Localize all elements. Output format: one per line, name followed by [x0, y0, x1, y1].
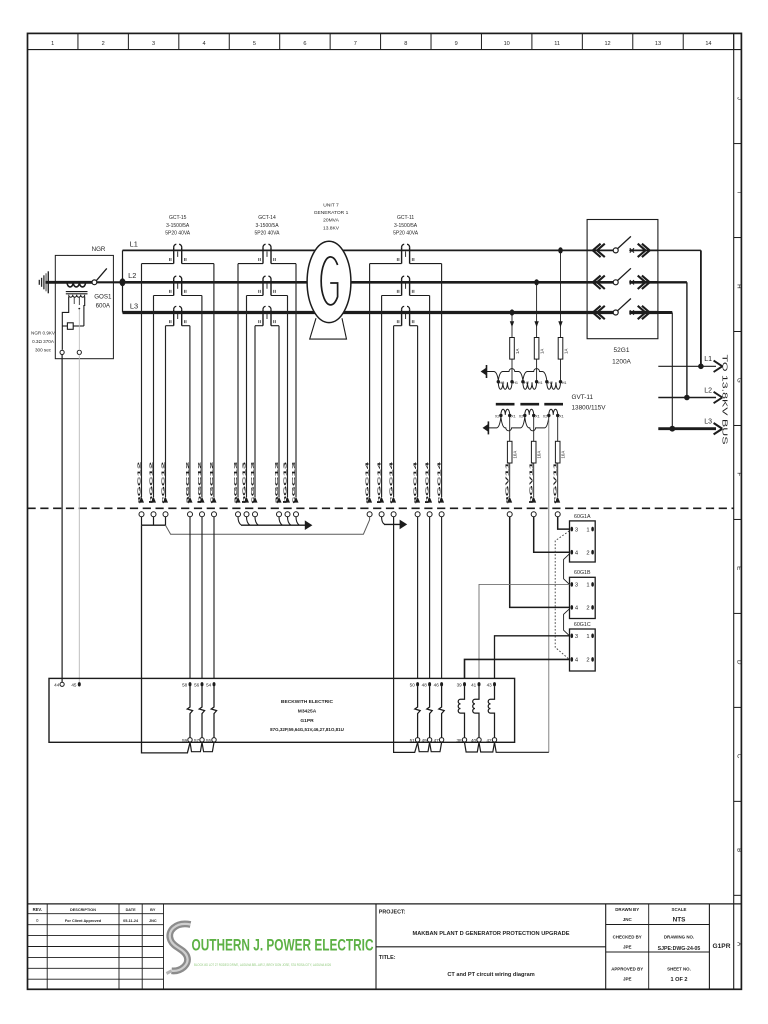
svg-text:cGC14: cGC14 [437, 461, 443, 504]
NGR transformer secondary winding [69, 295, 85, 297]
boundary marker wire bGC13 [285, 497, 290, 503]
svg-text:E: E [736, 566, 743, 570]
svg-text:47: 47 [434, 738, 440, 743]
feeder L3 riser [658, 311, 672, 314]
svg-text:cGC12: cGC12 [161, 461, 167, 504]
breaker drawout chevrons right [638, 244, 646, 257]
relay 60G1B terminals [571, 582, 574, 587]
svg-text:13800/115V: 13800/115V [572, 404, 607, 411]
wire GCT-11 c to relay 51 loop [394, 517, 418, 753]
svg-text:DRAWING NO.: DRAWING NO. [664, 935, 694, 940]
svg-text:10: 10 [504, 41, 510, 47]
svg-text:CT and PT circuit wiring diagr: CT and PT circuit wiring diagram [447, 972, 534, 978]
svg-text:6: 6 [303, 41, 306, 47]
svg-text:H2: H2 [548, 381, 553, 385]
svg-text:bGC14: bGC14 [377, 461, 383, 504]
svg-text:1200A: 1200A [612, 359, 631, 366]
wire NGR center tap to relay terminal 45 [78, 310, 80, 350]
boundary marker wire bGV11 [531, 497, 536, 503]
panel boundary dashed line [28, 507, 734, 509]
disconnect switch GOS1 [92, 280, 97, 285]
CT GCT-14 L3 secondary leads [255, 325, 263, 327]
PT GVT-11 phase 1 secondary winding [501, 409, 510, 415]
svg-text:13.8KV: 13.8KV [323, 225, 340, 231]
svg-text:1: 1 [586, 634, 589, 640]
svg-text:GCT-14: GCT-14 [258, 215, 276, 221]
generator G letter [321, 257, 337, 305]
svg-text:DESCRIPTION: DESCRIPTION [70, 908, 96, 912]
svg-text:10A: 10A [537, 451, 542, 459]
wire GCT-15 common to relay 59 loop [142, 525, 191, 753]
svg-text:X2: X2 [543, 415, 548, 419]
relay CT input element [427, 687, 432, 738]
svg-text:5P20 40VA: 5P20 40VA [255, 230, 281, 236]
PT GVT-11 phase 3 core [544, 403, 563, 406]
svg-text:39: 39 [457, 682, 463, 687]
generator neutral wire to NGR [46, 281, 93, 284]
CT GCT-14 L2 terminal marks [258, 290, 260, 293]
svg-text:1 OF 2: 1 OF 2 [670, 977, 687, 983]
svg-text:57: 57 [194, 738, 200, 743]
ground symbol at NGR [38, 280, 40, 285]
boundary marker wire bGC14 [427, 497, 432, 503]
svg-text:300 sec: 300 sec [35, 348, 52, 353]
svg-text:G1PR: G1PR [713, 943, 731, 950]
svg-text:H2: H2 [500, 381, 505, 385]
wires GCT-15 to relay terminals 58 56 54 [189, 517, 191, 679]
PT neutral wire down to relay commons [548, 418, 550, 752]
svg-text:60G1A: 60G1A [574, 514, 591, 520]
NGR terminal to relay 45 [77, 350, 81, 354]
svg-text:PROJECT:: PROJECT: [379, 909, 406, 915]
boundary marker wire aGV11 [507, 497, 512, 503]
svg-text:60G1B: 60G1B [574, 570, 591, 576]
svg-text:SCALE: SCALE [672, 907, 687, 912]
svg-text:H2: H2 [524, 381, 529, 385]
svg-text:10A: 10A [513, 451, 518, 459]
PT primary fuse 1A phase 1 [510, 338, 515, 360]
svg-text:cGC13: cGC13 [250, 461, 256, 504]
breaker pole line [587, 281, 613, 284]
svg-text:OUTHERN J. POWER ELECTRIC: OUTHERN J. POWER ELECTRIC [192, 937, 374, 955]
relay terminal 49 [427, 738, 431, 742]
tap node L1 for PT [558, 247, 563, 253]
relay terminal 59 [188, 738, 192, 742]
feeder L3 node [669, 426, 675, 432]
svg-text:X2: X2 [519, 415, 524, 419]
PT primary grounded bus [486, 365, 488, 378]
svg-text:BECKWITH ELECTRIC: BECKWITH ELECTRIC [281, 699, 334, 705]
PT secondary fuse 10A phase 3 [557, 416, 559, 442]
relay PT input element [458, 687, 464, 738]
bus L2 [123, 281, 588, 284]
CT GCT-11 L1 secondary leads [370, 263, 402, 265]
relay terminal 42 [492, 738, 496, 742]
svg-text:1A: 1A [515, 349, 520, 354]
rev table column lines [46, 904, 48, 989]
boundary marker wire bGC14 [379, 497, 384, 503]
svg-text:10A: 10A [561, 451, 566, 459]
PT secondary grounded bus [487, 421, 489, 434]
boundary marker wire bGC12 [151, 497, 156, 503]
NGR transformer core [66, 291, 88, 293]
CT GCT-15 L1 secondary leads [142, 263, 174, 265]
title block top edge [28, 903, 742, 905]
svg-text:7: 7 [354, 41, 357, 47]
CT GCT-11 L3 terminal marks [396, 320, 398, 323]
boundary marker wire bGC12 [200, 497, 205, 503]
svg-text:L1: L1 [704, 356, 712, 363]
breaker drawout chevrons left [593, 306, 601, 319]
svg-text:TO 13.8KV BUS: TO 13.8KV BUS [721, 355, 728, 446]
CT GCT-11 L2 winding [401, 279, 403, 295]
wire NGR to relay terminal 44 [61, 355, 63, 683]
svg-text:3: 3 [575, 634, 578, 640]
svg-text:CHECKED BY: CHECKED BY [613, 935, 642, 940]
CT GCT-11 L2 secondary leads [382, 295, 402, 297]
top ruler cell ticks [77, 33, 79, 49]
svg-text:49: 49 [422, 738, 428, 743]
boundary marker wire cGC13 [253, 497, 258, 503]
tap node L2 for PT [534, 279, 539, 285]
boundary marker wire aGC13 [236, 497, 241, 503]
svg-text:3: 3 [152, 41, 155, 47]
svg-text:51: 51 [410, 738, 416, 743]
svg-text:55: 55 [206, 738, 212, 743]
CT GCT-15 L1 winding [173, 247, 175, 263]
svg-text:JPE: JPE [623, 977, 632, 982]
svg-text:aGC12: aGC12 [185, 461, 191, 504]
svg-text:5P20 40VA: 5P20 40VA [165, 230, 191, 236]
svg-text:aGC13: aGC13 [233, 461, 239, 504]
NGR enclosure box [55, 255, 113, 358]
relay terminal 48 [428, 682, 431, 686]
svg-text:1: 1 [586, 527, 589, 533]
svg-text:F: F [736, 472, 743, 476]
svg-text:8: 8 [404, 41, 407, 47]
svg-text:UNIT 7: UNIT 7 [323, 203, 339, 209]
boundary marker wire aGC14 [415, 497, 420, 503]
NGR transformer primary winding [67, 282, 86, 287]
svg-text:M3425A: M3425A [298, 708, 317, 714]
svg-text:12: 12 [604, 41, 610, 47]
svg-text:H1: H1 [562, 381, 567, 385]
boundary marker wire cGC13 [294, 497, 299, 503]
svg-text:bGC14: bGC14 [425, 461, 431, 504]
PT GVT-11 phase 1 core [496, 403, 515, 406]
wire aGV11 to 60G1B terminal 4 [510, 517, 570, 608]
breaker contact [613, 280, 618, 285]
wire 60G1C t4 to relay terminal 39 [465, 659, 570, 678]
breaker drawout chevrons right [638, 276, 646, 289]
svg-text:L3: L3 [704, 419, 712, 426]
svg-text:SHEET NO.: SHEET NO. [667, 967, 691, 972]
svg-text:aGC12: aGC12 [137, 461, 143, 504]
svg-text:NTS: NTS [673, 916, 687, 923]
svg-text:3-1500/5A: 3-1500/5A [255, 223, 279, 229]
svg-text:X2: X2 [495, 415, 500, 419]
CT GCT-14 L2 winding [262, 279, 264, 295]
svg-text:J: J [736, 97, 743, 100]
svg-text:1A: 1A [564, 349, 569, 354]
CT GCT-14 L3 terminal marks [258, 320, 260, 323]
boundary marker wire cGC12 [212, 497, 217, 503]
svg-text:11: 11 [554, 41, 560, 47]
relay terminal 58 [189, 682, 192, 686]
relay 51-49-47 common loops [418, 742, 430, 751]
svg-text:5: 5 [253, 41, 256, 47]
svg-text:H1: H1 [538, 381, 543, 385]
relay terminal 41 [478, 682, 481, 686]
breaker drawout chevrons left [593, 276, 601, 289]
relay 60G1A box [570, 521, 596, 562]
CT GCT-11 L3 winding [401, 309, 403, 325]
svg-text:aGV11: aGV11 [505, 461, 511, 504]
PT secondary fuse 10A phase 1 [509, 416, 511, 442]
svg-text:MAKBAN PLANT D GENERATOR PROTE: MAKBAN PLANT D GENERATOR PROTECTION UPGR… [413, 931, 570, 937]
svg-text:cGC12: cGC12 [209, 461, 215, 504]
relay CT input element [415, 687, 420, 738]
svg-text:4: 4 [202, 41, 205, 47]
svg-text:20MVA: 20MVA [323, 218, 339, 224]
PT secondary fuse 10A phase 2 [533, 416, 535, 442]
svg-text:DRAWN BY: DRAWN BY [615, 907, 639, 912]
project cell line [605, 904, 607, 989]
CT GCT-15 L3 winding [173, 309, 175, 325]
svg-text:C: C [736, 754, 743, 759]
boundary marker wire cGC14 [439, 497, 444, 503]
relay 60G1B box [570, 577, 596, 618]
relay terminal 45 [78, 682, 81, 686]
svg-text:2: 2 [102, 41, 105, 47]
svg-text:NGR: NGR [92, 246, 106, 253]
feeder L1 node [698, 364, 704, 370]
PT primary fuse 1A phase 2 [534, 338, 539, 360]
svg-text:0.3Ω 370A: 0.3Ω 370A [32, 339, 55, 344]
svg-text:GOS1: GOS1 [94, 294, 112, 301]
CT GCT-11 L1 terminal marks [396, 258, 398, 261]
breaker drawout chevrons right [638, 306, 646, 319]
boundary marker wire bGC13 [244, 497, 249, 503]
svg-text:NGR 0.9KV: NGR 0.9KV [31, 331, 56, 336]
relay terminal 50 [416, 682, 419, 686]
link 60G1B t4 to 60G1C t3 [564, 609, 570, 636]
relay terminal 39 [463, 682, 466, 686]
relay terminal 46 [440, 682, 443, 686]
svg-text:48: 48 [422, 682, 428, 687]
svg-text:TITLE:: TITLE: [379, 955, 396, 961]
svg-text:cGC14: cGC14 [389, 461, 395, 504]
svg-text:3-1500/5A: 3-1500/5A [166, 223, 190, 229]
svg-text:600A: 600A [96, 303, 111, 310]
svg-text:L2: L2 [704, 387, 712, 394]
feeder L2 arrow line [658, 397, 716, 399]
wire cGV11 to 60G1A terminal 3 [558, 517, 570, 529]
svg-text:X1: X1 [535, 415, 540, 419]
relay terminal 51 [415, 738, 419, 742]
CT GCT-14 L2 secondary leads [247, 295, 264, 297]
svg-text:52G1: 52G1 [614, 347, 630, 354]
relay PT input element [488, 687, 494, 738]
relay 60G1A terminals [571, 527, 574, 532]
svg-text:46: 46 [434, 682, 440, 687]
breaker pole line [587, 311, 613, 314]
boundary marker wire aGC13 [277, 497, 282, 503]
svg-text:SJPE:DWG-24-05: SJPE:DWG-24-05 [658, 946, 701, 952]
CT GCT-15 L2 winding [173, 279, 175, 295]
NGR loading resistor [62, 325, 67, 327]
svg-text:X1: X1 [511, 415, 516, 419]
logo cell line [375, 904, 377, 989]
svg-text:14: 14 [705, 41, 711, 47]
GCT-15 secondary common bus [141, 517, 143, 526]
rev table row lines [28, 913, 164, 915]
breaker contact [613, 310, 618, 315]
PT primary fuse 1A phase 3 [558, 338, 563, 360]
svg-text:cGC13: cGC13 [291, 461, 297, 504]
relay terminal 40 [477, 738, 481, 742]
CT GCT-14 L1 secondary leads [238, 263, 263, 265]
logo S cable graphic [170, 924, 191, 971]
relay 38-40-42 common loops [465, 742, 480, 752]
svg-text:GVT-11: GVT-11 [572, 394, 594, 401]
CT GCT-15 L3 terminal marks [168, 320, 170, 323]
svg-text:GCT-11: GCT-11 [397, 215, 414, 221]
link 60G1A t4 to 60G1B t3 [564, 554, 570, 585]
feeder L1 arrow line [658, 365, 716, 367]
svg-text:2: 2 [586, 658, 589, 664]
boundary marker wire aGC14 [367, 497, 372, 503]
boundary marker wire cGC12 [163, 497, 168, 503]
svg-text:JPE: JPE [623, 945, 632, 950]
PT GVT-11 phase 3 primary winding [545, 380, 548, 383]
PT tap flow arrow phase 2 [534, 321, 538, 327]
svg-text:DATE: DATE [126, 908, 137, 912]
svg-text:bGC12: bGC12 [149, 461, 155, 504]
svg-text:For Client Approved: For Client Approved [65, 919, 102, 923]
svg-text:3-1500/5A: 3-1500/5A [394, 223, 418, 229]
CT GCT-11 L1 winding [401, 247, 403, 263]
right ruler cell ticks [734, 143, 742, 145]
relay terminal 56 [201, 682, 204, 686]
relay terminal 38 [462, 738, 466, 742]
svg-text:aGC13: aGC13 [274, 461, 280, 504]
relay terminal 43 [493, 682, 496, 686]
NGR terminal to relay 44 [60, 350, 64, 354]
relay 60G1C box [570, 629, 596, 671]
svg-text:BLOCK 8G LOT 27 RODEO DRIVE, L: BLOCK 8G LOT 27 RODEO DRIVE, LAGUNA BEL-… [194, 963, 331, 967]
svg-text:40: 40 [471, 738, 477, 743]
svg-text:43: 43 [487, 682, 493, 687]
tap node L3 for PT [510, 309, 515, 315]
svg-text:REV.: REV. [33, 907, 42, 912]
wire 60G1C t3 to relay terminal 43 [495, 636, 570, 679]
CT GCT-14 L1 winding [262, 247, 264, 263]
svg-text:H1: H1 [513, 381, 518, 385]
svg-text:L1: L1 [130, 239, 138, 248]
svg-text:50: 50 [410, 682, 416, 687]
feeder L2 riser [658, 281, 687, 283]
svg-text:aGC14: aGC14 [365, 461, 371, 504]
svg-text:38: 38 [456, 738, 462, 743]
svg-text:aGC14: aGC14 [413, 461, 419, 504]
svg-text:cGV11: cGV11 [553, 461, 559, 504]
feeder L3 arrow line [658, 427, 716, 430]
svg-text:1A: 1A [540, 349, 545, 354]
GCT-11 shorting bus with arrow [382, 517, 385, 525]
CT GCT-14 L1 terminal marks [258, 258, 260, 261]
svg-text:1: 1 [586, 583, 589, 589]
svg-text:bGC13: bGC13 [242, 461, 248, 504]
breaker contact [613, 248, 618, 253]
CT GCT-15 L2 terminal marks [168, 290, 170, 293]
svg-text:I: I [736, 191, 743, 193]
svg-text:bGC12: bGC12 [197, 461, 203, 504]
relay terminal 57 [200, 738, 204, 742]
CT GCT-15 L1 terminal marks [168, 258, 170, 261]
PT tap flow arrow phase 1 [510, 321, 514, 327]
right ruler band line [733, 33, 735, 989]
svg-text:1: 1 [51, 41, 54, 47]
svg-text:59: 59 [182, 738, 188, 743]
generator pedestal [310, 318, 347, 339]
svg-text:13: 13 [655, 41, 661, 47]
CT GCT-14 L3 winding [262, 309, 264, 325]
PT GVT-11 phase 3 secondary winding [549, 409, 558, 415]
generator circle [307, 241, 351, 322]
PT tap flow arrow phase 3 [558, 321, 562, 327]
top ruler band line [28, 49, 742, 51]
PT GVT-11 phase 2 primary winding [521, 380, 524, 383]
relay CT input element [199, 687, 204, 738]
sign block lines [648, 904, 650, 989]
svg-text:GENERATOR 1: GENERATOR 1 [314, 210, 349, 216]
svg-text:L2: L2 [128, 271, 136, 280]
boundary marker wire aGC12 [188, 497, 193, 503]
relay CT input element [211, 687, 216, 738]
NGR secondary right lead [83, 297, 86, 327]
svg-text:60G1C: 60G1C [574, 622, 591, 628]
svg-text:GCT-15: GCT-15 [169, 215, 187, 221]
svg-text:G1PR: G1PR [300, 718, 314, 724]
svg-text:2: 2 [586, 606, 589, 612]
svg-text:56: 56 [194, 682, 200, 687]
CT GCT-15 L3 secondary leads [166, 325, 174, 327]
relay M3425A box [49, 678, 515, 742]
svg-text:9: 9 [455, 41, 458, 47]
neutral junction node [120, 278, 126, 286]
breaker drawout chevrons left [593, 244, 601, 257]
svg-text:3: 3 [575, 527, 578, 533]
svg-text:H: H [736, 284, 743, 288]
CT GCT-15 L2 secondary leads [154, 295, 174, 297]
svg-text:58: 58 [182, 682, 188, 687]
bus L1 [123, 249, 588, 251]
PT GVT-11 phase 2 secondary winding [525, 409, 534, 415]
svg-text:D: D [736, 660, 743, 665]
wires GCT-11 to relay terminals 50 48 46 [417, 517, 419, 679]
PT GVT-11 phase 1 primary winding [497, 380, 500, 383]
svg-text:44: 44 [54, 682, 60, 687]
relay 59-57-55 common loops [190, 742, 202, 751]
svg-text:B: B [736, 848, 743, 852]
bus L3 [123, 311, 588, 314]
svg-text:BY: BY [150, 908, 156, 912]
PT primary tap wires [560, 250, 562, 337]
relay PT input element [473, 687, 479, 738]
svg-text:2: 2 [586, 550, 589, 556]
relay terminal 55 [212, 738, 216, 742]
